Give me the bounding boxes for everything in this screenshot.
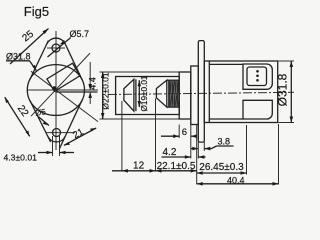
svg-text:Ø31.8: Ø31.8: [276, 73, 290, 106]
dimension 6: [178, 125, 180, 139]
left view diagonal centerline B: [31, 53, 90, 116]
contact cone: [156, 80, 166, 107]
svg-text:6: 6: [182, 127, 187, 138]
svg-text:Ø19±0.01: Ø19±0.01: [140, 75, 149, 111]
svg-text:Fig5: Fig5: [24, 4, 49, 19]
latch housing lower: [243, 100, 272, 119]
center dot: [53, 86, 56, 89]
left view diagonal centerline A: [31, 71, 98, 121]
teardrop tangent line bottom-right: [59, 100, 82, 149]
dimension 40.4: [278, 124, 280, 185]
teardrop tangent line top-left: [30, 41, 49, 81]
dimension 4.3 +-0.01: [52, 136, 54, 156]
grommet trapezoid: [124, 79, 134, 111]
teardrop tangent line top-right: [64, 40, 83, 80]
dimension diameter 22 line: [102, 72, 104, 119]
dimension diameter 31.8 right: [279, 60, 295, 62]
svg-text:3.8: 3.8: [218, 137, 231, 147]
body inner top line: [209, 63, 243, 65]
pin dots: [256, 70, 259, 73]
side view center line: [108, 92, 294, 94]
dimension diameter 19 line: [138, 80, 140, 107]
svg-text:40.4: 40.4: [227, 175, 245, 185]
bottom mounting hole: [53, 129, 61, 137]
dimension 4.4: [89, 62, 91, 90]
body inner bottom line: [209, 118, 243, 120]
flange plate side: [198, 41, 204, 143]
teardrop tangent line bottom-left: [30, 100, 51, 142]
svg-text:4.3±0.01: 4.3±0.01: [4, 153, 38, 163]
thread spring: [169, 80, 179, 107]
dimension diameter 22 extension lines: [100, 71, 180, 73]
bottom lug arc: [48, 137, 65, 142]
left view horizontal centerline: [27, 89, 98, 91]
collar nut: [191, 66, 199, 125]
top mounting hole: [52, 44, 60, 52]
svg-text:26.45±0.3: 26.45±0.3: [199, 162, 244, 173]
svg-text:12: 12: [133, 160, 145, 171]
flange body ellipse: [27, 65, 84, 116]
latch housing upper: [243, 64, 272, 89]
svg-text:Ø22±0.01: Ø22±0.01: [101, 72, 111, 110]
thread bounds: [167, 79, 179, 81]
svg-text:Ø31.8: Ø31.8: [6, 52, 31, 62]
svg-text:4.4: 4.4: [87, 77, 97, 90]
top lug arc: [47, 38, 65, 44]
svg-text:4.2: 4.2: [163, 147, 177, 158]
barrel outline: [116, 77, 180, 115]
svg-text:22.1±0.5: 22.1±0.5: [157, 161, 196, 172]
dimension row 12 / 22.1: [112, 170, 197, 172]
svg-text:Ø5.7: Ø5.7: [70, 29, 90, 39]
dimension 26.45: [246, 125, 248, 175]
keyway chord line: [56, 91, 98, 93]
insert window: [247, 67, 267, 86]
dimension 21: [64, 128, 96, 145]
dimension 4.2: [162, 156, 191, 158]
left view vertical centerline: [55, 31, 57, 150]
dimension 25: [10, 29, 49, 65]
row A extension lines: [121, 101, 123, 172]
washer: [179, 72, 191, 119]
dimension 3.8: [191, 148, 198, 150]
rotated cavity rectangle: [47, 63, 80, 91]
body seam line: [208, 61, 210, 123]
dimension 22: [5, 97, 30, 136]
rear body outline: [204, 61, 277, 123]
svg-text:Ø5: Ø5: [35, 107, 47, 117]
